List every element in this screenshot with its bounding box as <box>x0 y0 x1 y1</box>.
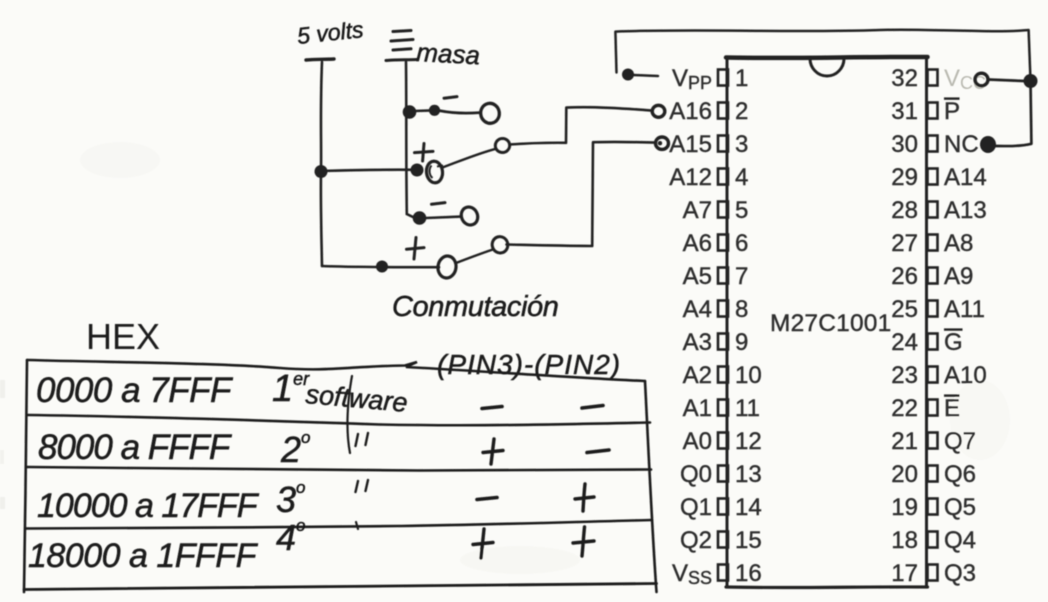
svg-text:9: 9 <box>735 329 748 356</box>
node: masa rail tap to SW1 - contact <box>403 105 417 119</box>
svg-text:1: 1 <box>735 65 748 92</box>
pin 23 A10 (right) <box>891 362 986 389</box>
table row 4 PIN3 plus <box>473 529 493 558</box>
IC U1 M27C1001 body outline <box>726 57 928 588</box>
wire: 5V vertical rail <box>321 62 322 266</box>
pin 10 A2 (left) <box>683 362 762 389</box>
SW2 lever arm (+ selected) <box>456 250 493 264</box>
svg-text:A11: A11 <box>944 296 985 323</box>
SW1 pole contact circle <box>494 137 512 154</box>
svg-text:NC: NC <box>944 131 979 158</box>
wire: SW2 - terminal to contact circle <box>426 217 461 218</box>
svg-text:21: 21 <box>891 428 918 455</box>
node A15 connector circle <box>656 137 669 149</box>
pin 14 Q1 (left) <box>680 494 762 521</box>
pin 11 A1 (left) <box>683 395 760 422</box>
svg-text:A16: A16 <box>669 98 712 125</box>
svg-text:28: 28 <box>891 197 918 224</box>
pin 1 VPP (left) <box>672 65 748 93</box>
svg-text:24: 24 <box>891 329 918 356</box>
pin 31 P (active-low) (right) <box>891 98 960 125</box>
table row 2 PIN2 minus <box>587 450 609 453</box>
svg-text:A4: A4 <box>683 296 712 323</box>
svg-text:10: 10 <box>735 362 762 389</box>
svg-text:A5: A5 <box>683 263 712 290</box>
svg-text:A3: A3 <box>683 329 712 356</box>
svg-text:E: E <box>944 395 960 422</box>
table row separator 1 <box>27 415 650 425</box>
svg-text:3: 3 <box>735 131 748 158</box>
table row 1 PIN2 minus <box>582 406 603 409</box>
pin 5 A7 (left) <box>683 197 749 224</box>
pin 16 VSS (left) <box>672 560 762 588</box>
pin 30 NC (right) <box>891 131 978 158</box>
svg-text:11: 11 <box>735 395 760 422</box>
svg-text:Conmutación: Conmutación <box>392 291 558 323</box>
pin 13 Q0 (left) <box>680 461 762 488</box>
table row 4 ditto tick <box>356 522 358 529</box>
table row 3 PIN2 plus <box>575 484 594 511</box>
wire: 5V rail to SW1 + contact <box>321 170 416 171</box>
table row 1 PIN3 minus <box>482 407 502 409</box>
svg-text:A12: A12 <box>669 164 712 191</box>
svg-text:22: 22 <box>891 395 918 422</box>
pin 27 A8 (right) <box>891 230 973 257</box>
svg-text:Q2: Q2 <box>680 527 712 554</box>
node: dot on bottom 5V run <box>376 261 388 273</box>
svg-text:Q3: Q3 <box>944 560 976 587</box>
svg-text:16: 16 <box>735 560 762 587</box>
node: SW2 - terminal dot at masa rail end <box>413 211 427 225</box>
svg-text:6: 6 <box>735 230 748 257</box>
node A16 connector circle <box>652 105 665 117</box>
svg-text:8000 a FFFF: 8000 a FFFF <box>38 428 233 467</box>
svg-text:7: 7 <box>735 263 748 290</box>
svg-text:A1: A1 <box>683 395 712 422</box>
table row separator 3 <box>26 520 652 529</box>
svg-text:A14: A14 <box>944 164 987 191</box>
svg-text:32: 32 <box>891 65 918 92</box>
IC U1 pin-1 index notch <box>810 59 844 77</box>
wire: masa vertical rail <box>406 62 414 218</box>
svg-text:A9: A9 <box>944 263 973 290</box>
SW2 plus polarity mark <box>407 238 425 260</box>
node: junction VCC/NC <box>1024 74 1038 88</box>
wire: SW2 pole to A15 (pin 3) <box>507 142 656 246</box>
SW1 lever arm (+ selected) <box>443 149 496 168</box>
svg-text:23: 23 <box>891 362 918 389</box>
SW2 pole contact circle <box>490 235 509 255</box>
svg-text:13: 13 <box>735 461 762 488</box>
pin 4 A12 (left) <box>669 164 748 191</box>
pin 19 Q5 (right) <box>891 494 976 521</box>
svg-text:26: 26 <box>891 263 918 290</box>
svg-text:0000 a 7FFF: 0000 a 7FFF <box>36 371 234 410</box>
svg-text:A10: A10 <box>944 362 987 389</box>
svg-text:29: 29 <box>891 164 918 191</box>
pin 18 Q4 (right) <box>891 527 976 554</box>
svg-text:Q6: Q6 <box>944 461 976 488</box>
pin 8 A4 (left) <box>683 296 749 323</box>
svg-text:20: 20 <box>891 461 918 488</box>
pin 24 G (active-low) (right) <box>891 329 962 356</box>
svg-text:12: 12 <box>735 428 762 455</box>
svg-text:masa: masa <box>416 37 481 70</box>
wire: SW1 - terminal dot to contact circle <box>440 111 480 113</box>
pin 15 Q2 (left) <box>680 527 762 554</box>
SW2 + contact circle <box>437 255 458 279</box>
svg-text:Q5: Q5 <box>944 494 976 521</box>
svg-text:P: P <box>944 98 960 125</box>
pin 28 A13 (right) <box>891 197 986 224</box>
wire: junction down to NC <box>994 81 1031 146</box>
svg-text:A6: A6 <box>683 230 712 257</box>
svg-text:10000 a 17FFF: 10000 a 17FFF <box>37 487 260 525</box>
wire: masa tap to SW1 - terminal <box>415 109 431 112</box>
table outer border <box>24 360 657 592</box>
SW1 + contact circle <box>425 160 443 183</box>
wire: 5V rail bottom run to SW2 + contact <box>322 266 439 267</box>
table row 2 PIN3 plus <box>483 439 503 464</box>
svg-text:A15: A15 <box>669 131 712 158</box>
SW2 minus polarity mark <box>432 203 446 205</box>
svg-text:Q7: Q7 <box>944 428 976 455</box>
wire: VPP to VCC top loop <box>615 30 1030 81</box>
svg-text:18: 18 <box>891 527 918 554</box>
svg-text:4: 4 <box>735 164 748 191</box>
pin 22 E (active-low) (right) <box>891 395 960 422</box>
pin 17 Q3 (right) <box>891 560 976 587</box>
pin 2 A16 (left) <box>669 98 748 125</box>
SW2 - contact circle <box>458 204 480 227</box>
svg-text:A7: A7 <box>683 197 712 224</box>
pin 6 A6 (left) <box>683 230 749 257</box>
svg-text:5: 5 <box>735 197 748 224</box>
table row 3 ditto mark <box>356 480 369 492</box>
table row separator 2 <box>27 467 651 471</box>
svg-text:17: 17 <box>891 560 918 587</box>
svg-text:Q1: Q1 <box>680 494 712 521</box>
svg-text:A8: A8 <box>944 230 973 257</box>
node: SW1 + terminal dot on 5V branch <box>411 164 424 177</box>
svg-text:30: 30 <box>891 131 918 158</box>
SW1 minus polarity mark <box>444 97 457 99</box>
pin 21 Q7 (right) <box>891 428 976 455</box>
SW1 plus polarity mark <box>415 144 434 162</box>
node: junction on 5V rail feeding SW1 + contact <box>315 165 328 178</box>
pin 29 A14 (right) <box>891 164 986 191</box>
pin 20 Q6 (right) <box>891 461 976 488</box>
node: VPP wire dot <box>622 69 634 81</box>
wire: SW1 pole to A16 (pin 2) <box>510 107 652 144</box>
pin 3 A15 (left) <box>669 131 748 158</box>
svg-text:G: G <box>944 329 963 356</box>
svg-text:25: 25 <box>891 296 918 323</box>
pin 32 VCC (right) <box>891 65 986 93</box>
svg-text:HEX: HEX <box>86 316 160 357</box>
svg-text:31: 31 <box>891 98 918 125</box>
svg-text:A2: A2 <box>683 362 712 389</box>
wire: VCC to junction <box>988 80 1024 82</box>
VCC connector circle <box>975 73 988 86</box>
svg-text:19: 19 <box>891 494 918 521</box>
node: NC terminal dot <box>980 136 996 153</box>
wire: VPP stub <box>634 75 659 76</box>
svg-text:M27C1001: M27C1001 <box>770 310 891 337</box>
svg-text:8: 8 <box>735 296 748 323</box>
svg-text:Q4: Q4 <box>944 527 976 554</box>
pin 9 A3 (left) <box>683 329 749 356</box>
svg-text:18000 a 1FFFF: 18000 a 1FFFF <box>28 537 259 575</box>
pin 7 A5 (left) <box>683 263 749 290</box>
svg-text:15: 15 <box>735 527 762 554</box>
SW1 - contact circle <box>479 102 501 125</box>
ground (masa) symbol <box>386 31 417 61</box>
pin 25 A11 (right) <box>891 296 985 323</box>
table row 2 ditto mark <box>356 433 369 446</box>
table row 3 PIN3 minus <box>477 498 497 500</box>
svg-text:2: 2 <box>735 98 748 125</box>
svg-text:A13: A13 <box>944 197 987 224</box>
svg-text:14: 14 <box>735 494 762 521</box>
svg-text:27: 27 <box>891 230 918 257</box>
pin 12 A0 (left) <box>683 428 762 455</box>
pin 26 A9 (right) <box>891 263 973 290</box>
node: SW1 - terminal dot <box>429 105 440 116</box>
table row 4 PIN2 plus <box>573 527 594 556</box>
table row 1 word software long f stroke <box>347 376 352 453</box>
svg-text:Q0: Q0 <box>680 461 712 488</box>
svg-text:A0: A0 <box>683 428 712 455</box>
5V supply terminal bar <box>306 59 334 60</box>
